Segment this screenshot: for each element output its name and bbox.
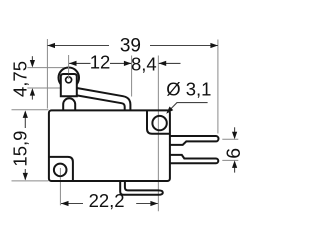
svg-text:22,2: 22,2 <box>89 190 125 211</box>
svg-text:Ø 3,1: Ø 3,1 <box>166 79 211 100</box>
svg-text:12: 12 <box>90 52 111 73</box>
svg-text:15,9: 15,9 <box>9 131 30 167</box>
svg-text:4,75: 4,75 <box>9 61 30 97</box>
svg-text:6: 6 <box>223 148 245 159</box>
svg-text:8,4: 8,4 <box>131 54 157 75</box>
